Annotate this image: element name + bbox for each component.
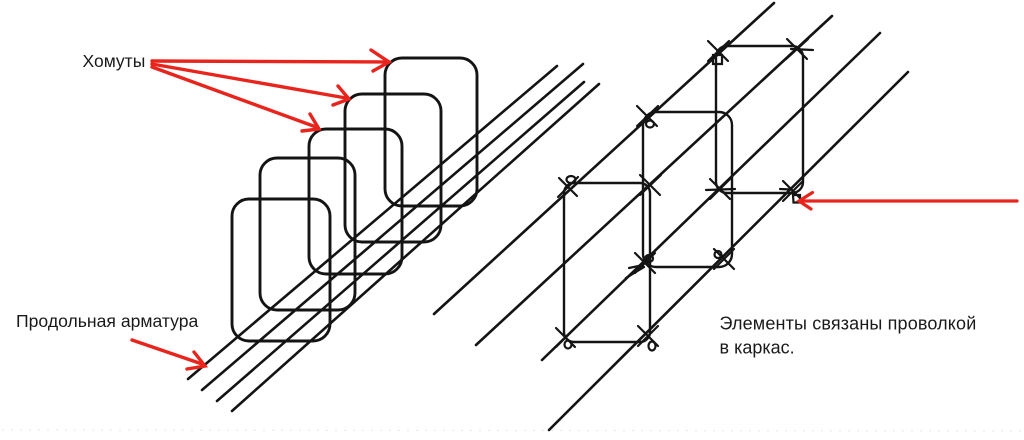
svg-text:Продольная арматура: Продольная арматура bbox=[16, 311, 199, 331]
stirrup R1 (top-most) bbox=[385, 58, 477, 206]
tie X at S3 bottom-right bbox=[780, 181, 803, 203]
arrow to stirrup R1 bbox=[152, 50, 389, 71]
cage stirrup S1 (front) bbox=[564, 183, 650, 342]
cage stirrup S3 (back) bbox=[716, 46, 803, 193]
arrow to cage tie (right drawing) bbox=[799, 193, 1017, 210]
stirrup R3 bbox=[309, 129, 402, 274]
longitudinal bar B (left drawing) bbox=[202, 64, 583, 390]
arrow to longitudinal bars bbox=[132, 340, 205, 369]
cage bar top-left (right drawing) bbox=[434, 3, 774, 314]
tie X at S1 bottom-left bbox=[556, 327, 576, 349]
tie X at S2 top-left bbox=[637, 106, 658, 128]
tie X at S1 top-right bbox=[640, 175, 661, 195]
tie X at S3 bottom-left bbox=[706, 179, 735, 199]
svg-text:Хомуты: Хомуты bbox=[83, 51, 146, 71]
tie X at S2 bottom-left bbox=[626, 253, 655, 278]
arrow to stirrup R2 bbox=[152, 64, 349, 105]
stirrup R2 bbox=[345, 94, 441, 242]
wire ties (X marks) bbox=[556, 39, 813, 351]
svg-text:в каркас.: в каркас. bbox=[720, 338, 795, 358]
cage bar bottom-left (right drawing) bbox=[542, 33, 880, 360]
longitudinal bar D (left drawing) bbox=[232, 84, 599, 411]
tie X at S1 top-left bbox=[558, 176, 578, 197]
svg-text:Элементы связаны проволкой: Элементы связаны проволкой bbox=[720, 314, 977, 334]
cage bar bottom-right (right drawing) bbox=[549, 72, 908, 430]
tie X at S2 bottom-right bbox=[714, 249, 734, 269]
red callout arrows bbox=[132, 50, 1017, 369]
tie X at S3 top-right bbox=[786, 39, 813, 59]
cage stirrup S2 (middle) bbox=[643, 112, 732, 267]
longitudinal bar A (left drawing) bbox=[188, 66, 557, 379]
tie X at S1 bottom-right bbox=[638, 326, 658, 351]
faint scan artifact line at bottom bbox=[2, 430, 1022, 431]
arrow to stirrup R3 bbox=[152, 67, 319, 131]
stirrup R4 bbox=[260, 158, 355, 310]
cage bar top-right (right drawing) bbox=[476, 16, 832, 345]
tie X at S3 top-left bbox=[708, 41, 729, 64]
longitudinal bar C (left drawing) bbox=[217, 82, 584, 401]
stirrup R5 (left drawing, front-most) bbox=[232, 199, 330, 341]
